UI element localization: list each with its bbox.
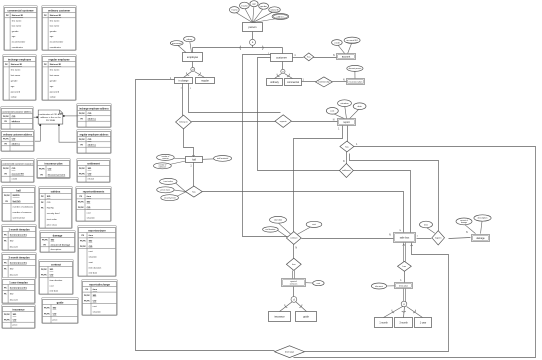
- svg-text:happens: happens: [435, 237, 442, 239]
- attribute national ID: [269, 7, 281, 13]
- wires damage attributes: [465, 221, 482, 233]
- svg-text:hall: hall: [192, 158, 196, 161]
- entity damage: [472, 235, 490, 242]
- svg-text:PK,FK: PK,FK: [79, 173, 85, 175]
- svg-text:last name: last name: [50, 25, 60, 28]
- svg-text:PK,FK: PK,FK: [4, 319, 10, 321]
- entity 1 month: [375, 318, 393, 328]
- wire commercial to membership: [302, 81, 316, 83]
- svg-text:last name: last name: [50, 74, 60, 77]
- table settlement: [77, 159, 111, 183]
- isa arc tp arc l: [391, 310, 394, 314]
- svg-text:gender: gender: [12, 30, 19, 33]
- svg-text:trust value: trust value: [47, 218, 58, 221]
- svg-text:wall material: wall material: [13, 217, 26, 220]
- svg-text:recommender: recommender: [12, 41, 26, 44]
- svg-text:guide: guide: [303, 315, 310, 318]
- svg-text:description: description: [51, 248, 62, 251]
- svg-text:insurance: insurance: [274, 315, 285, 318]
- svg-text:EMPID: EMPID: [13, 195, 20, 197]
- svg-text:end date: end date: [89, 272, 98, 275]
- relationship happens: [432, 231, 445, 245]
- entity insurance: [269, 312, 291, 322]
- svg-text:first name: first name: [50, 69, 60, 72]
- svg-text:regular: regular: [201, 79, 209, 82]
- svg-text:account NO: account NO: [346, 39, 358, 42]
- wire note to commercial customer address: [34, 116, 39, 118]
- svg-text:amount of damage: amount of damage: [51, 243, 71, 246]
- wire in charge to discharge (left loop): [136, 80, 275, 351]
- attribute start date: [270, 216, 287, 223]
- svg-text:National ID: National ID: [50, 63, 62, 66]
- svg-text:CID: CID: [93, 300, 97, 302]
- svg-text:safebox: safebox: [51, 189, 61, 193]
- svg-text:National ID: National ID: [11, 63, 23, 66]
- isa arc cust arc l: [276, 74, 279, 78]
- wire happens to damage: [449, 238, 471, 239]
- wire customer to settlement: [258, 58, 340, 171]
- svg-text:situation: situation: [340, 102, 349, 105]
- svg-text:address: address: [12, 121, 21, 123]
- svg-text:PK,FK: PK,FK: [3, 116, 9, 118]
- entity employee: [183, 53, 203, 62]
- svg-text:SID: SID: [50, 269, 54, 271]
- svg-text:reportsettlements: reportsettlements: [83, 189, 105, 193]
- wires person attributes: [234, 6, 280, 23]
- svg-text:cost: cost: [317, 282, 321, 285]
- svg-text:address: address: [12, 143, 21, 145]
- attribute password: [170, 41, 183, 46]
- svg-text:PK,FK: PK,FK: [41, 269, 47, 271]
- attribute salary: [184, 36, 195, 41]
- svg-text:settlement: settlement: [342, 169, 351, 172]
- svg-text:CID: CID: [88, 173, 92, 175]
- svg-text:password: password: [50, 90, 60, 93]
- svg-text:commercial customer account: commercial customer account: [2, 162, 32, 165]
- svg-text:commercial customer: commercial customer: [7, 8, 33, 12]
- relationship membership: [315, 77, 332, 87]
- svg-text:PK,FK: PK,FK: [84, 295, 90, 297]
- wire has(report) to happens: [350, 154, 439, 231]
- wire circle to commercial: [285, 74, 293, 79]
- relationship has account: [304, 53, 314, 61]
- wire note to ordinary customer address: [35, 124, 41, 141]
- entity guide: [296, 312, 317, 322]
- svg-text:incharge employee address: incharge employee address: [79, 108, 109, 110]
- svg-text:commercial customer address: commercial customer address: [2, 110, 32, 113]
- svg-text:CID: CID: [12, 139, 16, 141]
- svg-text:CID: CID: [88, 113, 92, 115]
- specialization circle employee isa: [191, 67, 195, 71]
- attribute amount of damage: [456, 218, 472, 225]
- svg-text:price: price: [53, 318, 59, 321]
- svg-text:incharge employee: incharge employee: [8, 57, 32, 61]
- isa arc tp arc r: [413, 310, 416, 314]
- attribute l name: [229, 7, 239, 13]
- arrowheads into safe box: [402, 231, 412, 247]
- arrowhead into hall: [192, 155, 194, 156]
- svg-text:security level: security level: [47, 212, 60, 215]
- svg-text:1 month: 1 month: [379, 321, 388, 324]
- wires account attributes: [338, 44, 352, 54]
- svg-text:situation: situation: [87, 217, 96, 220]
- isa arc svc arc l: [284, 304, 287, 308]
- svg-text:account: account: [342, 55, 351, 58]
- svg-text:CID: CID: [47, 202, 51, 204]
- svg-text:coordinates: coordinates: [50, 46, 62, 49]
- svg-text:wall material: wall material: [217, 157, 229, 160]
- wire has(hall) to safe box: [203, 192, 404, 233]
- svg-text:first name: first name: [50, 19, 60, 22]
- svg-text:number of safeboxes: number of safeboxes: [13, 205, 34, 208]
- wire membership to insurance plan: [333, 81, 347, 83]
- svg-text:guide: guide: [57, 300, 64, 304]
- svg-text:combination of CID AND: combination of CID AND: [39, 113, 63, 116]
- entity safe box: [394, 233, 416, 243]
- table regular employee address: [77, 130, 112, 154]
- wire settlement to safe box: [354, 171, 411, 233]
- table guide table: [42, 298, 79, 324]
- svg-text:insurance plan: insurance plan: [45, 161, 63, 165]
- svg-text:item duration: item duration: [89, 266, 102, 269]
- attribute wall material: [214, 156, 232, 162]
- svg-text:cost: cost: [87, 211, 91, 214]
- relationship has hall: [186, 186, 203, 197]
- wire circle to 3 month: [404, 307, 405, 318]
- svg-text:PK/ WHE: PK/ WHE: [46, 120, 56, 122]
- wire circle to ordinary: [275, 74, 282, 79]
- svg-text:price class: price class: [161, 190, 170, 192]
- svg-text:National ID: National ID: [12, 14, 24, 17]
- wire circle to specialization line: [252, 46, 254, 48]
- svg-text:cost: cost: [50, 284, 54, 287]
- wire has(report) to settlement: [346, 152, 348, 164]
- wire safe box to discharge (right): [305, 243, 449, 352]
- wire contract to safe box: [302, 238, 394, 240]
- wire specialization line: [193, 47, 283, 49]
- attribute security level: [161, 195, 179, 201]
- svg-text:CID: CID: [13, 319, 17, 321]
- svg-text:contract: contract: [51, 262, 61, 266]
- wire special services to circle: [293, 287, 295, 298]
- svg-text:membership: membership: [318, 81, 330, 84]
- attribute date: [353, 103, 366, 110]
- svg-text:PK,FK: PK,FK: [39, 168, 45, 170]
- svg-text:SID: SID: [10, 268, 14, 270]
- table commercial customer: [4, 6, 38, 51]
- svg-text:settlement: settlement: [87, 161, 100, 165]
- svg-text:start date: start date: [274, 219, 283, 222]
- wire has(report) to discharge (right loop): [294, 147, 536, 358]
- svg-text:SID: SID: [87, 202, 91, 204]
- svg-text:PK,FK: PK,FK: [42, 240, 48, 242]
- wire safe box to happens: [417, 238, 432, 240]
- svg-text:SID: SID: [13, 314, 17, 316]
- attribute end duration: [263, 227, 279, 232]
- svg-text:time: time: [87, 195, 92, 198]
- svg-text:in charge: in charge: [179, 79, 190, 82]
- wire report to has(report): [347, 126, 349, 142]
- svg-text:l name: l name: [231, 10, 238, 12]
- svg-text:3 month: 3 month: [399, 321, 408, 324]
- wire circle to insurance: [280, 302, 293, 312]
- wire customer to has(account): [293, 57, 304, 59]
- attribute f name: [240, 2, 250, 9]
- table contract: [39, 260, 74, 295]
- svg-text:last name: last name: [12, 25, 22, 28]
- attribute discount: [371, 283, 386, 289]
- svg-text:recommender: recommender: [50, 41, 64, 44]
- wire belongs-to to hall: [184, 129, 194, 157]
- entity insurance plan: [347, 79, 365, 85]
- isa arc spec left: [239, 46, 242, 50]
- svg-text:duration(month): duration(month): [10, 261, 27, 264]
- svg-text:customer: customer: [276, 55, 287, 59]
- double wire has(cs) to special services: [293, 271, 295, 279]
- svg-text:commercial: commercial: [287, 81, 299, 84]
- svg-text:SID: SID: [53, 307, 57, 309]
- svg-text:discount: discount: [10, 273, 19, 276]
- svg-text:seat: seat: [89, 261, 94, 264]
- svg-text:PK,FK: PK,FK: [80, 241, 86, 243]
- table reportsdischarge: [82, 280, 118, 316]
- attribute time: [420, 221, 433, 228]
- svg-text:safe box: safe box: [400, 236, 410, 239]
- svg-text:CID: CID: [88, 139, 92, 141]
- attribute description: [474, 215, 491, 221]
- wire belongs-to to reports: [192, 121, 276, 123]
- svg-text:cost: cost: [312, 223, 316, 226]
- svg-text:damage: damage: [53, 233, 63, 237]
- svg-text:SID: SID: [88, 168, 92, 170]
- table damage: [40, 231, 76, 253]
- svg-text:national ID: national ID: [270, 8, 279, 11]
- relationship reports: [275, 115, 291, 128]
- isa arc emp arc l: [186, 72, 189, 76]
- svg-text:1 month timeplan: 1 month timeplan: [8, 227, 30, 231]
- svg-text:National ID: National ID: [50, 14, 62, 17]
- svg-text:time: time: [93, 288, 98, 291]
- svg-text:gender: gender: [260, 5, 267, 8]
- entity report: [338, 119, 356, 126]
- svg-text:address: address: [277, 15, 286, 18]
- svg-text:damage: damage: [476, 238, 485, 240]
- svg-text:Hall No: Hall No: [47, 208, 55, 210]
- svg-text:PK,FK: PK,FK: [44, 307, 50, 309]
- svg-text:reports: reports: [280, 120, 288, 123]
- svg-text:SID: SID: [47, 196, 51, 198]
- svg-text:PK,FK: PK,FK: [78, 207, 84, 209]
- svg-text:CID: CID: [50, 275, 54, 277]
- svg-text:first name: first name: [11, 69, 21, 72]
- svg-text:regular employee address: regular employee address: [80, 134, 110, 136]
- svg-text:PK,FK: PK,FK: [79, 139, 85, 141]
- svg-text:SID: SID: [89, 241, 93, 243]
- relationship settlement: [340, 164, 354, 178]
- entity commercial: [285, 79, 302, 86]
- entity 1 year: [415, 318, 432, 328]
- svg-text:last name: last name: [11, 74, 21, 77]
- svg-text:contract: contract: [290, 237, 298, 240]
- svg-text:cost: cost: [330, 110, 334, 113]
- svg-text:CID: CID: [53, 313, 57, 315]
- wire time attribute: [427, 228, 435, 233]
- svg-text:SID: SID: [10, 293, 14, 295]
- svg-text:regular employee: regular employee: [48, 57, 70, 61]
- wire circle to guide: [296, 302, 307, 312]
- svg-text:cost: cost: [89, 250, 93, 253]
- wire customer drop: [282, 48, 284, 54]
- svg-text:duration(month): duration(month): [10, 233, 27, 236]
- table hall: [2, 186, 36, 222]
- svg-text:situation: situation: [89, 256, 98, 259]
- wire has(tp) to time plan: [404, 272, 406, 283]
- svg-text:reportsseizure: reportsseizure: [88, 228, 106, 232]
- svg-text:PK,FK: PK,FK: [44, 313, 50, 315]
- table insurance table: [2, 305, 36, 329]
- attribute cost (contract): [306, 221, 322, 227]
- double wire safe box to has(tp): [404, 243, 406, 262]
- svg-text:Hall NO: Hall NO: [13, 201, 21, 203]
- svg-text:credit: credit: [334, 41, 340, 44]
- table insurance plan: [37, 159, 71, 179]
- svg-text:insurance plan: insurance plan: [349, 81, 364, 83]
- wire circle to in charge: [184, 72, 192, 78]
- wire customer to circle: [282, 62, 284, 70]
- svg-text:belongs to: belongs to: [179, 121, 187, 124]
- svg-text:coordinates: coordinates: [12, 46, 24, 49]
- wire discount percent: [354, 71, 356, 79]
- svg-text:salary: salary: [11, 96, 18, 99]
- specialization circle services isa: [291, 297, 297, 303]
- svg-text:ordinary customer: ordinary customer: [48, 8, 70, 12]
- isa arc svc arc r: [299, 304, 302, 308]
- svg-text:ordinary customer address: ordinary customer address: [3, 133, 33, 136]
- svg-text:time: time: [89, 234, 94, 237]
- relationship belongs to hall: [176, 115, 192, 129]
- svg-text:1 year timeplan: 1 year timeplan: [9, 280, 28, 284]
- attribute gender: [259, 3, 269, 9]
- svg-text:refund: refund: [88, 178, 95, 181]
- wires report attributes: [333, 107, 359, 119]
- table 1 year timeplan: [2, 278, 36, 304]
- wire note to incharge employee address: [63, 115, 78, 117]
- attribute discount percent: [347, 65, 363, 71]
- svg-text:person: person: [249, 25, 257, 29]
- svg-text:account NO: account NO: [12, 172, 25, 175]
- wire contract to has(cs): [293, 245, 295, 259]
- table 1 month timeplan: [2, 225, 37, 251]
- wire customer to contract: [243, 55, 288, 237]
- svg-text:reportsdischarge: reportsdischarge: [89, 282, 110, 286]
- note: combination of CID AND address is the key for PK: [38, 110, 63, 124]
- attribute price class: [157, 187, 174, 193]
- wire circle to regular: [195, 72, 205, 78]
- entity special services: [282, 279, 306, 287]
- attribute address: [272, 14, 289, 20]
- relationship has report: [340, 141, 354, 152]
- specialization circle person isa: [250, 39, 256, 45]
- svg-text:price class: price class: [47, 224, 58, 227]
- svg-text:address: address: [88, 118, 97, 120]
- specialization circle timeplan isa: [401, 301, 407, 307]
- svg-text:CID: CID: [48, 168, 52, 170]
- svg-text:hall: hall: [16, 188, 21, 192]
- svg-text:PK,FK: PK,FK: [3, 168, 9, 170]
- svg-text:SID: SID: [51, 240, 55, 242]
- table incharge employee: [3, 55, 37, 101]
- svg-text:duration(month): duration(month): [10, 286, 27, 289]
- wire in charge to reports: [189, 84, 281, 113]
- wire person to circle: [252, 32, 254, 40]
- wires contract attributes: [278, 223, 311, 237]
- entity account: [337, 54, 356, 60]
- wire hall to has(hall): [193, 163, 195, 187]
- svg-text:discount: discount: [375, 285, 383, 288]
- svg-text:item duration: item duration: [50, 279, 63, 282]
- svg-text:cameras: cameras: [162, 157, 169, 160]
- svg-text:password: password: [172, 42, 182, 45]
- wire employee drop: [192, 48, 194, 53]
- table reportsseizure: [78, 226, 117, 277]
- wire cost special services: [306, 282, 313, 284]
- svg-text:discount: discount: [10, 245, 19, 248]
- svg-text:PK,FK: PK,FK: [4, 195, 10, 197]
- attribute number of safeboxes: [154, 163, 172, 169]
- svg-text:SID: SID: [93, 295, 97, 297]
- svg-text:PK,FK: PK,FK: [3, 139, 9, 141]
- entity regular: [196, 78, 215, 84]
- svg-text:salary: salary: [50, 96, 57, 99]
- svg-text:CID: CID: [87, 207, 91, 209]
- svg-text:PK,FK: PK,FK: [84, 300, 90, 302]
- svg-text:gender: gender: [50, 30, 57, 33]
- entity person: [243, 23, 263, 32]
- table ordinary customer address: [1, 130, 35, 152]
- wire note to regular employee address: [58, 124, 76, 142]
- relationship has timeplan: [398, 261, 412, 271]
- svg-text:CID: CID: [12, 116, 16, 118]
- attribute account NO: [344, 37, 360, 43]
- svg-text:PK,FK: PK,FK: [41, 275, 47, 277]
- isa arc cust arc r: [287, 74, 290, 78]
- attribute cost (services): [313, 281, 324, 286]
- svg-text:CID: CID: [12, 168, 16, 170]
- svg-text:cost: cost: [93, 305, 97, 308]
- specialization circle customer isa: [281, 69, 285, 73]
- table regular employee: [42, 55, 77, 101]
- table 3 month timeplan: [2, 253, 37, 279]
- svg-text:PK,FK: PK,FK: [4, 314, 10, 316]
- isa arc tp arc m: [402, 310, 406, 313]
- svg-text:trust value: trust value: [164, 180, 174, 183]
- entity in charge: [175, 78, 193, 84]
- svg-text:ordinary: ordinary: [270, 81, 279, 84]
- table commercial customer address: [1, 107, 34, 130]
- wire circle to 1 year: [407, 307, 423, 318]
- relationship has contract-services: [286, 258, 301, 270]
- svg-text:number of cameras: number of cameras: [13, 211, 33, 214]
- svg-text:services: services: [290, 282, 298, 285]
- relationship discharge: [275, 346, 305, 358]
- svg-text:damage: damage: [461, 222, 467, 224]
- svg-text:employee: employee: [187, 55, 199, 59]
- attribute number of cameras: [157, 154, 175, 160]
- svg-text:CID: CID: [89, 246, 93, 248]
- svg-text:PK,FK: PK,FK: [79, 168, 85, 170]
- svg-text:password: password: [11, 90, 21, 93]
- wires hall attributes: [167, 158, 216, 165]
